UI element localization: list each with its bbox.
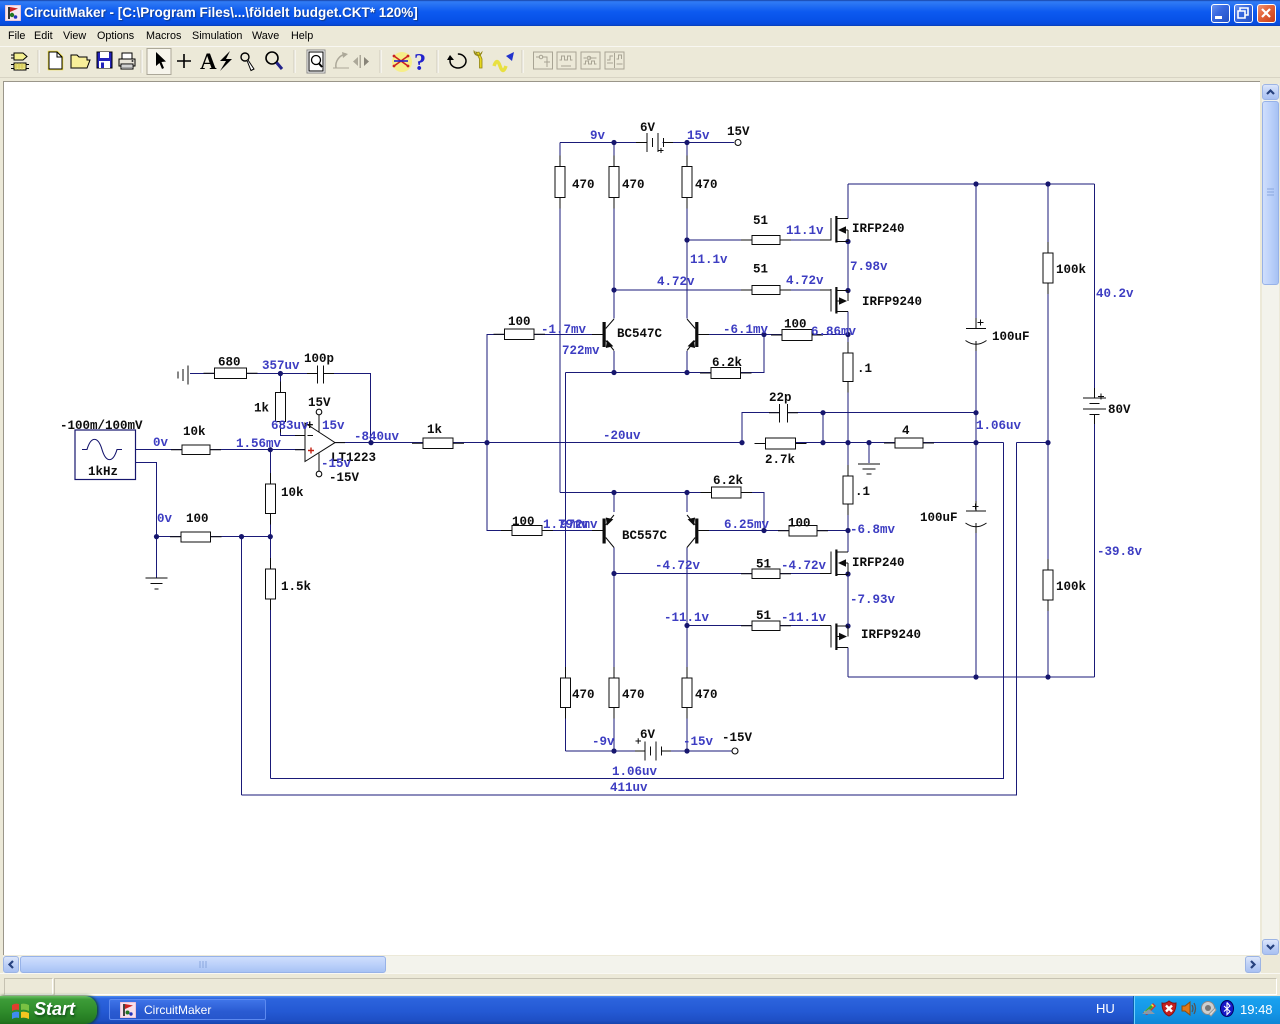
wire +input divider column <box>269 450 271 537</box>
junction node (1047,441.6) <box>1045 440 1050 445</box>
svg-text:6.2k: 6.2k <box>712 356 743 370</box>
wire Q4 collector / 470 column 3 bottom <box>686 548 688 752</box>
svg-text:0v: 0v <box>153 436 169 450</box>
svg-text:A: A <box>200 49 217 74</box>
svg-text:-15V: -15V <box>722 731 753 745</box>
battery 6V bottom <box>636 738 662 760</box>
svg-text:51: 51 <box>756 558 771 572</box>
resistor 470 bottom 1 <box>561 667 571 719</box>
svg-text:100p: 100p <box>304 352 334 366</box>
junction node (847,529.5) <box>845 528 850 533</box>
svg-text:-6.1mv: -6.1mv <box>723 323 769 337</box>
wire M2 source down <box>847 312 849 354</box>
icon: new document <box>49 52 62 69</box>
svg-text:411uv: 411uv <box>610 781 648 795</box>
wire 10k to op-amp + input <box>210 449 305 451</box>
wire input source to 10k <box>136 449 183 451</box>
wire M1 source to M2 drain 7.98v <box>847 242 849 291</box>
wire output 1k to -20uv node <box>453 442 742 444</box>
wire Q1 emitter stub <box>613 351 615 373</box>
wire Q1 base row <box>534 334 603 336</box>
junction node (686,624.5) <box>684 623 689 628</box>
svg-text:6.86mv: 6.86mv <box>811 325 857 339</box>
resistor 470 top 3 <box>682 156 692 209</box>
svg-text:-15V: -15V <box>329 471 360 485</box>
wire M4 source down to rail <box>847 648 849 678</box>
junction node (613,141.5) <box>611 140 616 145</box>
svg-text:6.25mv: 6.25mv <box>724 518 770 532</box>
wire 1k to op-amp - input <box>280 422 305 436</box>
resistor 100 gate top <box>771 330 823 341</box>
wire Q2 emitter stub <box>686 351 688 373</box>
wire MOSFET rail bottom <box>848 676 1095 678</box>
vertical scrollbar <box>1262 84 1279 955</box>
junction node (763,333.5) <box>761 332 766 337</box>
junction node (240.5,535.6) <box>239 534 244 539</box>
svg-text:100: 100 <box>508 315 531 329</box>
icon: reset <box>447 54 466 68</box>
wire 6.2k row bottom y491 <box>560 493 764 531</box>
svg-text:6V: 6V <box>640 728 656 742</box>
svg-text:0v: 0v <box>157 512 173 526</box>
svg-text:470: 470 <box>572 178 595 192</box>
svg-text:9v: 9v <box>590 129 606 143</box>
MOSFET M1 IRFP240 <box>831 216 848 243</box>
svg-text:IRFP240: IRFP240 <box>852 222 905 236</box>
wire Q4 base row 6.25mv <box>699 530 849 532</box>
battery 80V <box>1083 394 1106 415</box>
MOSFET M2 IRFP9240 <box>831 287 848 314</box>
svg-text:6V: 6V <box>640 121 656 135</box>
op-amp U1 LT1223 <box>305 409 335 477</box>
resistor 100 lower left <box>170 532 222 542</box>
junction node (847,240.5) <box>845 239 850 244</box>
ground symbol left under source <box>146 578 168 589</box>
junction node (975,441.6) <box>973 440 978 445</box>
restore button <box>1234 4 1253 23</box>
resistor 1k output <box>412 438 464 449</box>
svg-text:.1: .1 <box>857 362 872 376</box>
wire Q3 emitter stub <box>613 493 615 513</box>
svg-text:-11.1v: -11.1v <box>664 611 710 625</box>
transistor Q4 <box>687 515 698 548</box>
wire 680 to 100p node <box>247 373 318 375</box>
tray icon: display adapter <box>1142 1003 1156 1015</box>
junction node (763,529.5) <box>761 528 766 533</box>
resistor 100 gate bottom <box>778 526 828 537</box>
junction node (686,491.5) <box>684 490 689 495</box>
junction node (822,441.6) <box>820 440 825 445</box>
icon: mirror arrows <box>353 55 369 68</box>
taskbar <box>0 996 1280 1024</box>
svg-text:IRFP9240: IRFP9240 <box>862 295 922 309</box>
resistor 10k input <box>171 445 221 455</box>
wire ground to 100 row <box>157 536 182 538</box>
svg-text:BC557C: BC557C <box>622 529 668 543</box>
junction node (847,441.6) <box>845 440 850 445</box>
svg-text:40.2v: 40.2v <box>1096 287 1134 301</box>
svg-text:11.1v: 11.1v <box>786 224 824 238</box>
wire feedback drop 411uv <box>242 443 1017 795</box>
junction node (269.3,535.6) <box>268 534 273 539</box>
capacitor 100p <box>318 366 324 384</box>
svg-text:10k: 10k <box>281 486 304 500</box>
svg-text:1k: 1k <box>427 423 443 437</box>
svg-text:IRFP240: IRFP240 <box>852 556 905 570</box>
capacitor 100uF top polarized <box>966 320 987 345</box>
wire 357uv node to 1k down <box>279 374 281 393</box>
wire bottom supply rail -9v/-15v <box>566 750 733 752</box>
resistor 470 bottom 3 <box>682 667 692 719</box>
resistor 470 top 1 <box>555 156 565 209</box>
svg-text:100: 100 <box>512 515 535 529</box>
wire M1 drain up <box>847 184 849 219</box>
junction node (686,239) <box>684 237 689 242</box>
icon: wrench yellow <box>474 51 482 68</box>
tray icon: audio config <box>1202 1002 1217 1017</box>
svg-text:972mv: 972mv <box>560 518 598 532</box>
svg-text:4: 4 <box>902 424 910 438</box>
wire 100k column x1047 <box>1047 184 1049 677</box>
tray icon: bluetooth <box>1221 1001 1234 1017</box>
minimize button <box>1211 4 1230 23</box>
wire 470 column 3 top / Q2 collector <box>686 143 688 319</box>
wire feedback column x241 <box>241 537 243 795</box>
junction node (1047,183) <box>1045 181 1050 186</box>
ground symbol right <box>858 464 880 474</box>
wire 80V battery column <box>1094 184 1096 677</box>
wire gate row -4.72v <box>614 573 831 575</box>
svg-text:22p: 22p <box>769 391 792 405</box>
svg-text:51: 51 <box>753 263 768 277</box>
junction node (613,371.5) <box>611 370 616 375</box>
svg-text:51: 51 <box>756 609 771 623</box>
junction node (613,491.5) <box>611 490 616 495</box>
transistor Q1 BC547C <box>603 319 615 351</box>
svg-text:470: 470 <box>572 688 595 702</box>
svg-text:1.06uv: 1.06uv <box>976 419 1022 433</box>
svg-text:-4.72v: -4.72v <box>781 559 827 573</box>
terminal +15V <box>735 140 741 146</box>
resistor 51 gate 4 <box>741 621 791 631</box>
wire feedback tap right <box>1017 442 1049 444</box>
component lead stubs <box>295 143 1095 752</box>
svg-text:51: 51 <box>753 214 768 228</box>
svg-text:80V: 80V <box>1108 403 1131 417</box>
pressed select tool button <box>147 49 171 75</box>
horizontal scrollbar <box>3 956 1261 973</box>
icon: digital/analog mode <box>392 52 412 72</box>
wire 1.5k column <box>269 537 271 779</box>
transistor Q3 BC557C <box>603 515 615 548</box>
junction node (686,371.5) <box>684 370 689 375</box>
svg-text:100uF: 100uF <box>920 511 958 525</box>
icon: zoom tool <box>266 52 282 69</box>
junction node (847,333.5) <box>845 332 850 337</box>
junction node (613,289) <box>611 287 616 292</box>
grayed scope buttons <box>534 52 625 69</box>
resistor 470 top 2 <box>609 156 619 209</box>
svg-text:7.98v: 7.98v <box>850 260 888 274</box>
app icon <box>5 5 21 21</box>
window title bar <box>0 0 1280 26</box>
wire gate row 11.1v <box>687 239 831 241</box>
icon: open folder <box>71 55 90 68</box>
junction node (155.5,535.6) <box>154 534 159 539</box>
wire 470 column 2 top / Q1 collector <box>613 143 615 319</box>
menu bar <box>0 26 1280 46</box>
svg-text:680: 680 <box>218 356 241 370</box>
wire Q3 base row <box>542 530 603 532</box>
svg-text:-6.8mv: -6.8mv <box>850 523 896 537</box>
wire gate row -11.1v <box>687 625 831 627</box>
svg-text:IRFP9240: IRFP9240 <box>861 628 921 642</box>
junction node (486,441.6) <box>484 440 489 445</box>
svg-text:683uv: 683uv <box>271 419 309 433</box>
junction node (822,411.7) <box>820 410 825 415</box>
wire Q3 collector / 470 column 2 bottom <box>613 548 615 752</box>
junction node (686,750) <box>684 748 689 753</box>
wire ground stem right <box>868 443 870 463</box>
svg-text:722mv: 722mv <box>562 344 600 358</box>
resistor 51 gate 2 <box>741 286 791 295</box>
svg-text:100: 100 <box>788 517 811 531</box>
svg-text:1.06uv: 1.06uv <box>612 765 658 779</box>
tray icon: security shield <box>1162 1001 1176 1016</box>
svg-text:4.72v: 4.72v <box>786 274 824 288</box>
svg-text:-11.1v: -11.1v <box>781 611 827 625</box>
wire .1 bottom to -6.8mv node <box>847 504 849 552</box>
resistor 6.2k top <box>700 368 752 379</box>
svg-text:100uF: 100uF <box>992 330 1030 344</box>
junction node (847,573) <box>845 571 850 576</box>
status strip <box>0 973 1280 997</box>
resistor 470 bottom 2 <box>609 667 619 719</box>
resistor 1k feedback <box>276 382 286 433</box>
svg-text:6.2k: 6.2k <box>713 474 744 488</box>
wire M3 drain to M4 drain -7.93v <box>847 574 849 626</box>
junction node (613,750) <box>611 748 616 753</box>
wire 2.7k right segment <box>796 442 896 444</box>
toolbar <box>0 46 1280 78</box>
junction node (975,676) <box>973 674 978 679</box>
wire 22p bracket left <box>742 413 780 443</box>
svg-text:100k: 100k <box>1056 263 1087 277</box>
resistor 680 <box>204 368 258 379</box>
resistor 100 upper driver <box>494 329 546 340</box>
svg-text:-39.8v: -39.8v <box>1097 545 1143 559</box>
svg-text:470: 470 <box>622 178 645 192</box>
wire gate row 4.72v <box>614 289 831 291</box>
junction node (686,141.5) <box>684 140 689 145</box>
resistor 6.2k bottom <box>701 487 753 498</box>
svg-text:15V: 15V <box>308 396 331 410</box>
svg-text:4.72v: 4.72v <box>657 275 695 289</box>
capacitor 22p <box>780 404 788 423</box>
svg-text:100k: 100k <box>1056 580 1087 594</box>
wire 4 to output cap node <box>923 442 1004 444</box>
wire feedback drop 1.06uv <box>270 443 1003 779</box>
wire top supply rail 9v/15v <box>560 142 734 144</box>
svg-text:1.5k: 1.5k <box>281 580 312 594</box>
icon: probe tool <box>241 53 254 71</box>
svg-text:470: 470 <box>695 178 718 192</box>
svg-text:2.7k: 2.7k <box>765 453 796 467</box>
svg-text:-100m/100mV: -100m/100mV <box>60 419 143 433</box>
wire emitter row top y371 <box>566 335 765 373</box>
svg-text:-20uv: -20uv <box>603 429 641 443</box>
resistor 100k bottom <box>1043 559 1053 611</box>
svg-text:1.56mv: 1.56mv <box>236 437 282 451</box>
svg-text:BC547C: BC547C <box>617 327 663 341</box>
wire 100uF column x975 <box>975 184 977 677</box>
junction node (847,289.5) <box>845 288 850 293</box>
resistor .1 bottom <box>843 465 853 515</box>
icon: plus tool <box>177 54 191 68</box>
icon: rotate grayed <box>333 52 349 68</box>
svg-text:357uv: 357uv <box>262 359 300 373</box>
resistor 1.5k <box>266 558 276 610</box>
wire base drive column x486 <box>487 335 512 531</box>
toolbar separators <box>38 50 522 73</box>
svg-text:1k: 1k <box>254 402 270 416</box>
battery 6V top <box>647 133 664 153</box>
svg-text:11.1v: 11.1v <box>690 253 728 267</box>
svg-text:15v: 15v <box>322 419 345 433</box>
wire op-amp output <box>335 442 423 444</box>
svg-text:-1.7mv: -1.7mv <box>541 323 587 337</box>
wire .1 top to node <box>847 382 849 477</box>
junction node (613,572.5) <box>611 571 616 576</box>
svg-text:100: 100 <box>784 318 807 332</box>
junction node (868,441.6) <box>866 440 871 445</box>
svg-text:?: ? <box>414 50 426 76</box>
ground symbol top-left rotated <box>178 366 188 385</box>
svg-text:15V: 15V <box>727 125 750 139</box>
signal generator V1 -100m/100mV 1kHz <box>75 430 136 480</box>
resistor 100 lower driver <box>501 526 553 536</box>
svg-text:15v: 15v <box>687 129 710 143</box>
wire 22p branch down <box>822 413 824 443</box>
icon: lightning run <box>220 51 232 71</box>
svg-text:1kHz: 1kHz <box>88 465 118 479</box>
junction node (269.3,448.7) <box>268 447 273 452</box>
close button <box>1257 4 1276 23</box>
junction node (279.4,372.5) <box>278 371 283 376</box>
wire MOSFET rail top <box>848 183 1095 185</box>
junction node (370,441.6) <box>368 440 373 445</box>
svg-text:100: 100 <box>186 512 209 526</box>
wire source lower lead to ground <box>136 463 157 578</box>
wire 470 column 1 top <box>559 143 561 493</box>
junction node (975,183) <box>973 181 978 186</box>
wire Q2 base row -6.1mv to 6.86mv <box>699 334 849 336</box>
resistor 4 <box>884 438 934 448</box>
icon: chip/sheet symbol <box>11 53 29 70</box>
icon: waveform <box>494 52 514 71</box>
svg-text:-15v: -15v <box>683 735 714 749</box>
icon: preview page <box>307 50 325 73</box>
capacitor 100uF bottom polarized <box>966 504 987 527</box>
svg-text:-7.93v: -7.93v <box>850 593 896 607</box>
wire 100p to output node <box>324 374 371 443</box>
svg-text:-9v: -9v <box>592 735 615 749</box>
resistor 10k divider <box>266 473 276 525</box>
wire emitter bracket x564 <box>565 373 567 752</box>
resistor 2.7k <box>755 438 807 449</box>
terminal -15V <box>732 748 738 754</box>
svg-text:10k: 10k <box>183 425 206 439</box>
MOSFET M3 IRFP240 <box>831 550 848 577</box>
svg-text:-4.72v: -4.72v <box>655 559 701 573</box>
wire Q4 emitter stub <box>686 493 688 513</box>
tray icon: volume speaker <box>1182 1002 1196 1015</box>
resistor 51 gate 3 <box>741 569 791 579</box>
svg-text:470: 470 <box>695 688 718 702</box>
wire 22p to 100uF+ node <box>788 412 977 414</box>
junction node (975,411.7) <box>973 410 978 415</box>
svg-text:.1: .1 <box>855 485 870 499</box>
resistor .1 top <box>843 342 853 393</box>
resistor 100k top <box>1043 242 1053 294</box>
transistor Q2 <box>687 319 698 351</box>
icon: save floppy <box>97 52 112 68</box>
resistor 51 gate 1 <box>741 236 791 245</box>
junction node (847,625) <box>845 623 850 628</box>
wire ground lead to 680 <box>190 373 215 375</box>
icon: print <box>119 53 135 69</box>
junction node (1047,676) <box>1045 674 1050 679</box>
wire 100 to feedback nodes <box>211 536 271 538</box>
junction node (741,441.6) <box>739 440 744 445</box>
svg-text:-840uv: -840uv <box>354 430 400 444</box>
MOSFET M4 IRFP9240 <box>831 624 848 651</box>
svg-text:-15v: -15v <box>321 457 352 471</box>
svg-text:470: 470 <box>622 688 645 702</box>
